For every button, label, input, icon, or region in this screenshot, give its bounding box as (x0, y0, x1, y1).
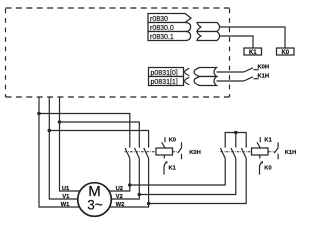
star bus middle leg (235, 133, 237, 148)
parameter flag r0830.0 (148, 23, 191, 33)
parameter flag r0830.1 (148, 32, 191, 42)
wire r0830.0 to relay K0 (219, 27, 285, 48)
coil K0H (156, 148, 173, 155)
mechanical linkage K1H (220, 151, 251, 153)
node L3 branch (58, 120, 62, 124)
auxiliary contact K1H (274, 142, 296, 159)
coil K1H (252, 148, 269, 155)
wire p0831[1] from contact K1H (217, 80, 244, 82)
contact K1 above coil K1H (257, 137, 273, 148)
wire r0830.1 to relay K1 (219, 36, 253, 48)
svg-text:K1: K1 (264, 138, 272, 144)
contactor K1H main contact 2 (231, 148, 236, 158)
contact K0 above coil K0H (162, 137, 176, 148)
svg-text:r0830.1: r0830.1 (150, 34, 174, 41)
svg-text:V2: V2 (116, 194, 123, 200)
signal connector p0831[1] in (194, 77, 217, 86)
feedback contact K1H (244, 74, 269, 81)
signal connector p0831[0] in (194, 68, 217, 77)
contactor K0H main contact 2 (135, 148, 140, 158)
node star point (234, 131, 238, 135)
mechanical linkage K0H (125, 151, 157, 153)
node U2 (128, 183, 132, 187)
contactor K0H main contact 3 (144, 148, 149, 158)
wire V2 to contactor K1H contact 2 (139, 158, 236, 194)
drive unit dashed enclosure (6, 8, 230, 97)
mechanical linkage K0H right (173, 151, 179, 153)
mechanical linkage K1H right (268, 151, 275, 153)
svg-text:U2: U2 (116, 186, 123, 192)
svg-text:p0831[1]: p0831[1] (151, 79, 178, 86)
relay K0 (277, 48, 295, 56)
contact K0 below coil K1H (260, 155, 272, 175)
svg-text:W1: W1 (61, 202, 70, 208)
svg-text:U1: U1 (62, 186, 70, 192)
contactor K1H main contact 3 (241, 148, 246, 158)
contactor K1H main contact 1 (220, 148, 225, 158)
node V2 (138, 193, 142, 197)
node L2 branch (48, 129, 52, 133)
svg-text:K0: K0 (281, 50, 289, 56)
motor M 3~ (78, 183, 112, 217)
contactor K0H main contact 1 (125, 148, 130, 158)
parameter box p0831[0] (149, 68, 190, 78)
parameter flag r0830 (148, 14, 191, 24)
svg-text:K0: K0 (264, 165, 271, 171)
phase wire L1 to motor W1 (39, 97, 80, 208)
svg-text:K0H: K0H (189, 150, 201, 156)
branch wire L3 to contactor K0H contact 2 (60, 122, 140, 148)
phase wire L2 to motor V1 (49, 97, 77, 200)
svg-text:V1: V1 (62, 194, 70, 200)
svg-text:K1: K1 (249, 50, 257, 56)
branch wire L1 to contactor K0H contact 1 (39, 114, 130, 148)
wire contact2 to motor V2 (111, 158, 139, 199)
phase wire L3 to motor U1 (60, 97, 80, 192)
relay K1 (244, 48, 262, 56)
svg-text:K1: K1 (169, 165, 177, 171)
svg-text:K0H: K0H (258, 65, 270, 71)
signal connector r0830.1 out (197, 32, 220, 41)
wire contact3 to motor W2 (110, 158, 149, 207)
node W2 (147, 202, 151, 206)
branch wire L2 to contactor K0H contact 3 (49, 131, 148, 148)
svg-text:3~: 3~ (87, 198, 103, 213)
auxiliary contact K0H (178, 142, 201, 159)
feedback contact K0H (244, 65, 269, 72)
wire contact1 to motor U2 (109, 158, 130, 191)
wire W2 to contactor K1H contact 3 (149, 158, 247, 203)
contact K1 below coil K0H (164, 155, 177, 175)
svg-text:K1H: K1H (258, 74, 270, 80)
svg-text:W2: W2 (116, 202, 125, 208)
svg-text:K0: K0 (169, 138, 176, 144)
wire U2 to contactor K1H contact 1 (130, 158, 225, 185)
signal connector r0830.0 out (197, 23, 220, 32)
wire p0831[0] from contact K0H (217, 71, 244, 73)
star point bus (225, 133, 246, 148)
parameter box p0831[1] (149, 77, 190, 87)
svg-text:K1H: K1H (285, 150, 297, 156)
node L1 branch (37, 112, 41, 116)
